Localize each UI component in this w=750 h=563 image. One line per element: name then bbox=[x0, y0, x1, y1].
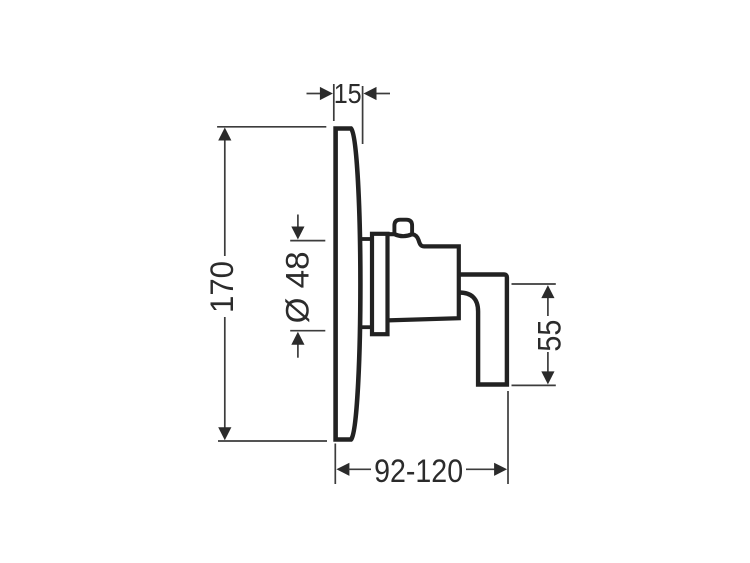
dim 15 : right extension line bbox=[362, 86, 364, 144]
dim 55 : top extension line bbox=[512, 283, 556, 285]
svg-text:Ø 48: Ø 48 bbox=[280, 251, 316, 323]
dim 170 : bottom extension line bbox=[218, 440, 327, 442]
escutcheon wall plate (side profile) bbox=[336, 129, 361, 440]
dim 92-120 : left extension line bbox=[334, 444, 336, 485]
svg-text:92-120: 92-120 bbox=[374, 453, 463, 489]
dim 55 : vertical line upper segment bbox=[547, 292, 549, 316]
dim diameter 48 : top extension line bbox=[290, 240, 325, 242]
dim diameter 48 : upper arrow (points down) bbox=[291, 227, 304, 240]
dim diameter 48 : lower arrow (points up) bbox=[291, 332, 304, 345]
dim 15 : left extension line bbox=[333, 84, 335, 121]
dim 92-120 : left arrow (points left) bbox=[336, 463, 349, 476]
dim 55 : top arrow (points up) bbox=[541, 285, 554, 298]
dim 92-120 : left line segment bbox=[348, 468, 371, 470]
dim 92-120 : right arrow (points right) bbox=[494, 463, 507, 476]
sleeve top line bbox=[358, 237, 372, 241]
dim 15 : right tail line bbox=[376, 93, 390, 95]
dim 55 : bottom extension line bbox=[512, 384, 556, 386]
dim 170 : vertical line lower segment bbox=[224, 317, 226, 434]
dim 15 : right arrow bbox=[364, 87, 377, 100]
dim 170 : top extension line bbox=[217, 126, 326, 128]
sleeve bottom line bbox=[358, 325, 372, 329]
dim 55 : bottom arrow (points down) bbox=[541, 371, 554, 384]
dim diameter 48 : lower tail line bbox=[297, 344, 299, 358]
valve body bbox=[388, 234, 459, 320]
dim 55 : vertical line lower segment bbox=[547, 352, 549, 378]
dim diameter 48 : upper tail line bbox=[297, 215, 299, 229]
svg-text:15: 15 bbox=[334, 78, 362, 109]
dim 92-120 : right line segment bbox=[466, 468, 495, 470]
svg-text:55: 55 bbox=[532, 320, 568, 352]
dim 15 : left tail line bbox=[307, 93, 322, 95]
dim diameter 48 : bottom extension line bbox=[290, 330, 325, 332]
dim 15 : left arrow bbox=[320, 87, 333, 100]
lever handle bbox=[459, 275, 507, 385]
button on top of body bbox=[394, 220, 412, 235]
dim 170 : bottom arrow bbox=[218, 427, 231, 440]
svg-text:170: 170 bbox=[204, 261, 240, 313]
dim 170 : vertical line upper segment bbox=[224, 134, 226, 256]
dim 170 : top arrow bbox=[218, 128, 231, 141]
valve collar bbox=[372, 234, 388, 334]
dim 92-120 : right extension line bbox=[507, 391, 509, 484]
